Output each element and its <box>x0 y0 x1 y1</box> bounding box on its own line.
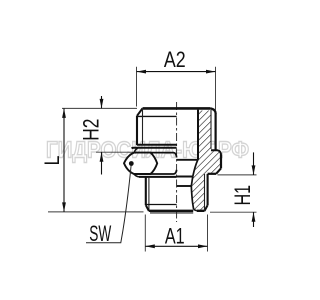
svg-text:L: L <box>40 155 64 165</box>
bottom face edge right of mouth <box>197 210 205 212</box>
hex top-left chamfer arc <box>134 148 138 153</box>
cavity wall lower <box>191 186 193 210</box>
chamfer base line <box>137 115 177 117</box>
lower thread minor line right <box>204 174 206 211</box>
hex mid face bottom edge <box>151 170 177 174</box>
dimension A1 arrows <box>145 244 155 248</box>
dimension H2 extension line <box>96 151 133 153</box>
lower thread minor line left <box>148 177 150 211</box>
dimension A2 arrows <box>137 70 147 74</box>
hex band bottom edge left <box>139 176 177 178</box>
hex mid face top edge <box>151 153 177 158</box>
lower thread OD right <box>207 174 209 205</box>
top-right corner arc <box>210 108 216 113</box>
dimension A1 line <box>145 245 207 247</box>
bore wall upper <box>197 110 199 160</box>
dimension H2 arrows <box>100 99 104 109</box>
internal shoulder 2 <box>177 176 193 178</box>
mouth chamfer <box>194 210 197 211</box>
hex bottom-left chamfer arc <box>134 174 139 177</box>
mouth inner edge line <box>150 212 193 214</box>
svg-text:H1: H1 <box>230 185 255 205</box>
hex left face (lens hexagon) <box>124 153 157 174</box>
dimension L line <box>63 108 65 211</box>
dimension L extension line top <box>62 107 137 109</box>
svg-text:H2: H2 <box>79 119 104 141</box>
lower thread OD left <box>145 177 147 205</box>
top-left chamfer <box>137 108 143 115</box>
upper thread minor line left <box>142 108 144 144</box>
svg-text:A1: A1 <box>165 224 185 249</box>
hex flare right edge <box>220 155 222 168</box>
hex flare chamfer <box>216 168 221 174</box>
dimension H1 arrows <box>252 165 256 175</box>
cavity wall middle <box>193 160 198 177</box>
cavity wall between shoulders <box>191 176 193 186</box>
SW leader dot <box>129 161 134 166</box>
dimension A1 extension lines <box>144 215 146 252</box>
hex band top edge left <box>132 147 177 149</box>
upper thread OD right <box>215 113 217 150</box>
top face edge <box>143 107 211 110</box>
dimension L extension line bottom <box>48 211 144 213</box>
upper thread bottom edge <box>137 144 177 146</box>
dimension H1 extension line bottom <box>210 211 257 213</box>
dimension A2 line <box>137 71 216 73</box>
dimension H1 extension line top <box>218 174 257 176</box>
hex flare bottom edge <box>208 173 217 175</box>
upper thread OD left <box>136 116 138 145</box>
dimension H1 line lower tail <box>253 212 255 227</box>
upper thread minor line right <box>210 110 212 149</box>
SW leader line <box>86 164 131 243</box>
dimension H2 line lower tail <box>101 152 103 174</box>
internal shoulder 1 <box>177 159 198 161</box>
hex flare step edge <box>211 150 221 155</box>
section hatch region (right half) <box>191 111 221 211</box>
bottom face edge <box>149 210 193 212</box>
dimension H2 line upper tail <box>101 96 103 108</box>
svg-text:A2: A2 <box>164 47 186 72</box>
dimension A2 extension lines <box>136 67 138 107</box>
lower chamfer base line <box>146 204 177 206</box>
dimension H1 line upper tail <box>253 152 255 175</box>
internal shoulder 3 <box>177 185 192 187</box>
bottom-right chamfer <box>205 205 208 211</box>
bottom-left chamfer <box>146 205 149 211</box>
dimension L arrows <box>62 108 66 118</box>
centerline (vertical axis) <box>176 102 178 222</box>
